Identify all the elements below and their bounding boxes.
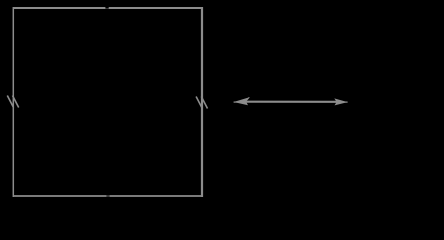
arrowhead top (black, covers wire) bbox=[105, 4, 108, 9]
arrow (double-headed) bbox=[234, 98, 348, 106]
wire right bbox=[201, 7, 203, 197]
break mark right bbox=[196, 97, 207, 109]
wire top bbox=[13, 7, 202, 9]
wire left bbox=[12, 7, 14, 197]
wire bottom bbox=[13, 195, 202, 197]
break mark left bbox=[7, 96, 18, 108]
arrowhead bottom (black, covers wire) bbox=[106, 195, 109, 197]
